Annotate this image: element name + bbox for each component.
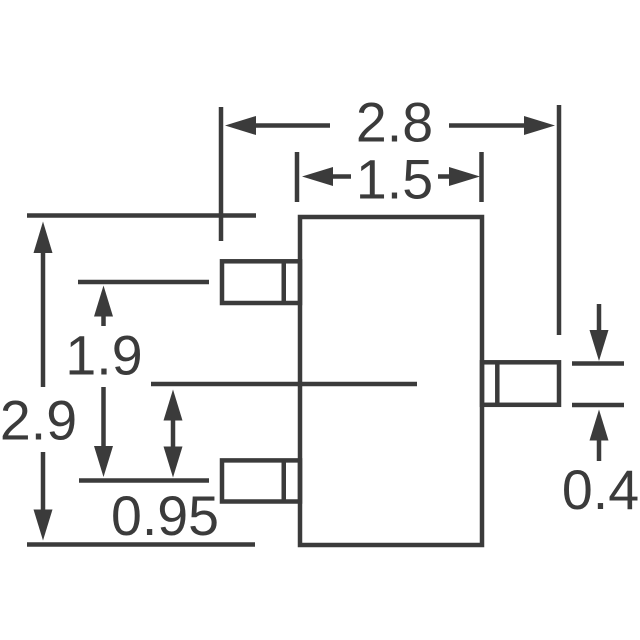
svg-text:2.8: 2.8	[356, 91, 433, 153]
svg-text:1.9: 1.9	[65, 324, 142, 386]
svg-text:0.95: 0.95	[111, 485, 219, 547]
svg-text:2.9: 2.9	[0, 390, 77, 452]
svg-text:1.5: 1.5	[356, 148, 433, 210]
svg-text:0.4: 0.4	[562, 459, 639, 521]
